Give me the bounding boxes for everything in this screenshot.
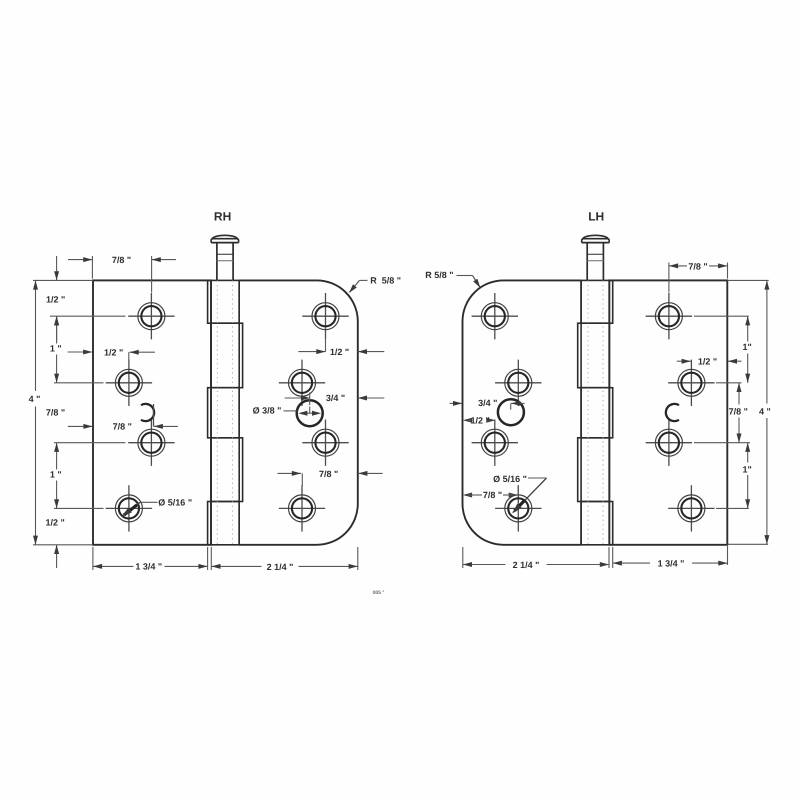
LH chain dim 1 upper xyxy=(747,316,749,341)
LH bottom: extension line below leaf left edge xyxy=(462,547,464,568)
LH extension line at hole row 1 (right) xyxy=(694,315,749,317)
RH top dim 7/8 arrows and label xyxy=(68,259,92,261)
RH stud tangent line below C arc xyxy=(153,404,155,426)
knuckle segment 2 xyxy=(578,323,610,388)
screw hole at (691,508): outer circle xyxy=(678,495,705,522)
screw hole at (669,316): inner circle xyxy=(659,306,679,326)
hinge barrel right edge line xyxy=(238,280,240,544)
RH top dim 7/8: extension line up from hole column 1 xyxy=(151,256,153,293)
svg-text:3/4 ": 3/4 " xyxy=(326,393,345,403)
LH top dim 7/8 line, arrows and label xyxy=(669,265,687,267)
RH right leaf outline with rounded right corners R 5/8 xyxy=(239,280,358,544)
LH bottom dim 1 3/4 xyxy=(613,562,650,564)
LH left leaf dim 7/8: stub to hole column 4 xyxy=(517,485,519,495)
screw hole at (518,508): crosshair centerlines xyxy=(495,507,541,509)
screw hole at (495,316): inner circle xyxy=(485,306,505,326)
screw hole at (151,443): crosshair centerlines xyxy=(128,442,174,444)
svg-text:R 5/8 ": R 5/8 " xyxy=(425,270,453,280)
knuckle segment 5 xyxy=(208,502,240,545)
RH right leaf dim 3/4 arrows xyxy=(285,397,311,399)
svg-text:Ø 5/16 ": Ø 5/16 " xyxy=(158,497,192,507)
screw hole at (302,383): inner circle xyxy=(292,373,312,393)
svg-text:2 1/4 ": 2 1/4 " xyxy=(267,562,294,572)
screw hole at (518,383): outer circle xyxy=(505,369,532,396)
LH right leaf outline xyxy=(609,280,727,544)
screw hole at (129,383): outer circle xyxy=(115,369,142,396)
svg-text:7/8 ": 7/8 " xyxy=(729,406,748,416)
screw hole at (518,508): inner circle xyxy=(508,498,528,518)
screw hole at (326,316): inner circle xyxy=(315,306,335,326)
knuckle segment 4 xyxy=(578,438,610,502)
screw hole at (129,508): outer circle xyxy=(115,495,142,522)
LH chain dim 1 lower xyxy=(747,443,749,463)
hinge pin hidden lines (dotted) inside barrel xyxy=(216,280,218,544)
RH security stud hole (3/8 dia circle) on right leaf xyxy=(297,400,323,426)
RH left leaf outline xyxy=(93,280,211,544)
svg-text:1": 1" xyxy=(743,465,752,475)
svg-text:1/2 ": 1/2 " xyxy=(698,357,717,367)
screw hole at (669,443): inner circle xyxy=(659,433,679,453)
knuckle segment 2 xyxy=(211,323,243,388)
screw hole at (302,383): crosshair centerlines xyxy=(279,382,325,384)
svg-text:4 ": 4 " xyxy=(29,394,41,404)
screw hole at (495,443): inner circle xyxy=(485,433,505,453)
svg-text:1/2 ": 1/2 " xyxy=(330,347,349,357)
svg-text:4 ": 4 " xyxy=(759,406,771,416)
LH left leaf dim 7/8: inside arrows xyxy=(463,493,472,498)
RH right leaf dim 1/2 arrows xyxy=(298,351,325,353)
RH bottom dim 2 1/4 xyxy=(211,565,261,567)
svg-text:1/2 ": 1/2 " xyxy=(46,518,65,528)
svg-text:7/8 ": 7/8 " xyxy=(483,490,502,500)
LH security stud hole (3/8 dia circle) on left leaf xyxy=(498,399,524,425)
svg-text:1 ": 1 " xyxy=(50,343,62,353)
LH bottom: extension line below leaf right edge xyxy=(727,546,729,565)
knuckle segment 3 xyxy=(581,388,613,438)
RH extension line at leaf top (left) xyxy=(33,279,93,281)
screw hole at (151,316): inner circle xyxy=(141,306,161,326)
svg-text:3/4 ": 3/4 " xyxy=(478,398,497,408)
screw hole at (302,508): inner circle xyxy=(292,498,312,518)
screw hole at (326,316): outer circle xyxy=(312,303,339,330)
hinge pin collar lines xyxy=(587,253,603,255)
LH extension line at hole row 2 (right) xyxy=(716,382,742,384)
hinge pin button cap xyxy=(211,242,239,244)
screw hole at (691,383): inner circle xyxy=(681,373,701,393)
RH chain dim 1/2 top: outside arrows xyxy=(56,256,58,280)
knuckle segment 1 xyxy=(208,280,240,323)
screw hole at (151,443): outer circle xyxy=(138,429,165,456)
screw hole at (495,443): outer circle xyxy=(481,429,508,456)
RH top dim 7/8: extension line up from leaf left edge xyxy=(91,256,93,279)
RH bottom dim 1 3/4 xyxy=(93,565,134,567)
hinge pin collar lines xyxy=(217,253,233,255)
RH right leaf dim 1/2: stub from hole column 1 xyxy=(325,339,327,351)
RH chain dim 1/2 bottom: outside arrows xyxy=(56,545,58,568)
screw hole at (129,383): crosshair centerlines xyxy=(106,382,152,384)
RH bottom: extension line below leaf right edge xyxy=(357,547,359,570)
RH bottom: extension line below leaf left edge xyxy=(92,547,94,570)
screw hole at (495,443): crosshair centerlines xyxy=(472,442,518,444)
LH extension line at hole row 3 (right) xyxy=(694,442,750,444)
knuckle segment 5 xyxy=(581,502,613,545)
svg-text:1/2 ": 1/2 " xyxy=(104,347,123,357)
svg-text:7/8 ": 7/8 " xyxy=(113,422,132,432)
RH right leaf dim 3/4: stub on stud centerline xyxy=(309,393,311,406)
screw hole at (495,316): crosshair centerlines xyxy=(472,315,518,317)
screw hole at (691,508): crosshair centerlines xyxy=(668,507,714,509)
hinge pin button cap xyxy=(582,242,610,244)
hinge barrel left edge line xyxy=(210,280,212,544)
RH overall 4 inch dimension line xyxy=(35,280,37,391)
screw hole at (129,508): crosshair centerlines xyxy=(106,507,152,509)
screw hole at (326,443): crosshair centerlines xyxy=(302,442,348,444)
knuckle segment 4 xyxy=(211,438,243,502)
RH dia 5/16 leader and label xyxy=(140,501,158,503)
screw hole at (669,316): crosshair centerlines xyxy=(646,315,692,317)
LH bottom dim 2 1/4 xyxy=(463,564,506,566)
hinge barrel right edge line xyxy=(608,280,610,544)
svg-text:LH: LH xyxy=(588,209,604,223)
screw hole at (669,316): outer circle xyxy=(655,303,682,330)
LH left leaf dim 1/2: inside arrows xyxy=(463,418,472,423)
screw hole at (129,383): inner circle xyxy=(119,373,139,393)
LH extension line at hole row 4 (right) xyxy=(716,507,749,509)
RH left leaf dim 1/2: stub to hole column 2 xyxy=(128,352,130,360)
screw hole at (518,383): crosshair centerlines xyxy=(495,382,541,384)
svg-text:1/2 ": 1/2 " xyxy=(46,294,65,304)
svg-text:2 1/4 ": 2 1/4 " xyxy=(513,560,540,570)
svg-text:7/8 ": 7/8 " xyxy=(319,469,338,479)
LH top dim 7/8: extension line up from leaf right edge xyxy=(727,263,729,279)
screw hole at (691,383): outer circle xyxy=(678,369,705,396)
RH security stud recess arc (C shape) on left leaf xyxy=(141,404,154,421)
LH bottom: extension lines below barrel xyxy=(608,547,610,568)
svg-text:1/2 ": 1/2 " xyxy=(471,416,490,426)
RH extension line at hole row 3 (left) xyxy=(54,442,126,444)
screw hole at (302,383): outer circle xyxy=(289,369,316,396)
LH left leaf outline with rounded left corners R 5/8 xyxy=(463,280,582,544)
screw hole at (669,443): crosshair centerlines xyxy=(646,442,692,444)
RH extension line at hole row 2 (left) xyxy=(54,382,104,384)
svg-text:7/8 ": 7/8 " xyxy=(46,407,65,417)
RH right leaf dim 7/8: stub from hole column 4 xyxy=(301,473,303,486)
RH extension line at leaf bottom (left) xyxy=(33,544,93,546)
screw hole at (669,443): outer circle xyxy=(655,429,682,456)
screw hole at (518,508): outer circle xyxy=(505,495,532,522)
hinge pin shaft xyxy=(216,243,218,281)
LH chain dim 7/8 middle xyxy=(738,383,740,405)
svg-text:R 5/8 ": R 5/8 " xyxy=(370,276,401,286)
screw hole at (151,443): inner circle xyxy=(141,433,161,453)
LH left leaf dim 3/4 arrows xyxy=(450,402,463,404)
RH extension line at hole row 1 (left) xyxy=(50,315,126,317)
screw hole at (151,316): outer circle xyxy=(138,303,165,330)
LH security stud recess arc (C shape) on right leaf xyxy=(666,404,679,421)
screw hole at (691,383): crosshair centerlines xyxy=(668,382,714,384)
hinge pin hidden lines (dotted) inside barrel xyxy=(587,280,589,544)
svg-text:1": 1" xyxy=(743,342,752,352)
knuckle segment 3 xyxy=(208,388,240,438)
svg-text:Ø 5/16 ": Ø 5/16 " xyxy=(493,474,527,484)
svg-text:005 °: 005 ° xyxy=(373,590,385,596)
screw hole at (302,508): outer circle xyxy=(289,495,316,522)
svg-text:1 ": 1 " xyxy=(50,469,62,479)
LH top dim 7/8: extension line up from hole column 1 xyxy=(668,263,670,293)
LH left leaf dim 3/4: stub on stud centerline xyxy=(510,403,512,409)
screw hole at (518,383): inner circle xyxy=(508,373,528,393)
screw hole at (691,508): inner circle xyxy=(681,498,701,518)
screw hole at (326,443): inner circle xyxy=(315,433,335,453)
RH bottom: extension lines below barrel xyxy=(207,547,209,570)
svg-text:Ø 3/8 ": Ø 3/8 " xyxy=(253,406,282,416)
RH left leaf dim 1/2: arrows outside xyxy=(68,351,93,353)
LH right leaf dim 1/2 arrows xyxy=(677,360,691,362)
screw hole at (129,508): inner circle xyxy=(119,498,139,518)
RH right leaf dim 7/8 arrows xyxy=(278,472,302,474)
RH chain dim 1 lower xyxy=(56,443,58,470)
hinge pin shaft xyxy=(586,243,588,281)
screw hole at (302,508): crosshair centerlines xyxy=(279,507,325,509)
screw hole at (326,316): crosshair centerlines xyxy=(302,315,348,317)
svg-text:RH: RH xyxy=(214,209,231,223)
RH chain dim 1 upper xyxy=(56,316,58,343)
hinge barrel left edge line xyxy=(580,280,582,544)
svg-text:7/8 ": 7/8 " xyxy=(112,255,131,265)
screw hole at (495,316): outer circle xyxy=(481,303,508,330)
RH left leaf dim 7/8 horizontal: arrows xyxy=(68,425,93,427)
RH extension line at hole row 4 (left) xyxy=(54,507,104,509)
LH overall 4 inch dimension line xyxy=(766,280,768,403)
screw hole at (326,443): outer circle xyxy=(312,429,339,456)
knuckle segment 1 xyxy=(581,280,613,323)
LH extension line at leaf bottom (right) xyxy=(728,543,769,545)
screw hole at (151,316): crosshair centerlines xyxy=(128,315,174,317)
svg-text:1 3/4 ": 1 3/4 " xyxy=(135,562,162,572)
svg-text:7/8 ": 7/8 " xyxy=(688,261,707,271)
svg-text:1 3/4 ": 1 3/4 " xyxy=(658,558,685,568)
LH extension line at leaf top (right) xyxy=(728,279,769,281)
